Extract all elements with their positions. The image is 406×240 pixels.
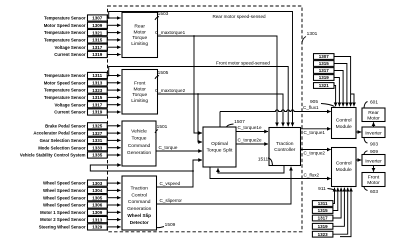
label 909 bbox=[364, 149, 378, 155]
svg-text:909: 909 bbox=[370, 149, 378, 155]
svg-text:Optimal: Optimal bbox=[211, 141, 228, 147]
svg-text:C_torque1: C_torque1 bbox=[304, 130, 326, 135]
label 601 bbox=[364, 100, 378, 108]
svg-text:Wheel Speed Sensor: Wheel Speed Sensor bbox=[43, 195, 86, 200]
dashed system boundary 1301 bbox=[108, 6, 303, 232]
sensor Vehicle Stability Control System 1335 bbox=[20, 152, 121, 158]
svg-text:C_torque1e: C_torque1e bbox=[238, 125, 262, 130]
svg-text:Current Sensor: Current Sensor bbox=[54, 110, 86, 115]
svg-text:Motor 1 Speed Sensor: Motor 1 Speed Sensor bbox=[40, 210, 86, 215]
label 1505 bbox=[155, 70, 169, 79]
block Control Module (rear) bbox=[332, 108, 357, 139]
sensor Current Sensor 1319 bbox=[54, 51, 120, 57]
block Vehicle Torque Command Generation 1501 bbox=[122, 121, 156, 166]
label 1301 bbox=[302, 31, 318, 44]
svg-text:1307: 1307 bbox=[319, 54, 330, 59]
svg-text:Traction: Traction bbox=[130, 186, 148, 192]
svg-text:Wheel Slip: Wheel Slip bbox=[127, 213, 151, 218]
wire rear speed to control module bbox=[351, 94, 354, 106]
wire C_maxtorque1 to traction controller bbox=[158, 35, 278, 126]
svg-text:1309: 1309 bbox=[92, 210, 103, 215]
block Front Motor Torque Limiting 1505 bbox=[122, 70, 158, 115]
sensor Temperature Sensor 1315 bbox=[44, 37, 121, 43]
sensor box 1315 (rear CM input) bbox=[314, 61, 347, 107]
svg-text:Gear Selection Sensor: Gear Selection Sensor bbox=[40, 138, 86, 143]
wire C_maxtorque1 branch to optimal torque split bbox=[194, 36, 202, 133]
svg-text:Torque: Torque bbox=[132, 35, 147, 41]
block Inverter (front) 909 bbox=[362, 155, 385, 166]
wire C_vspeed to optimal torque split bbox=[157, 160, 203, 187]
wire rear motor speed-sensed bbox=[108, 12, 293, 127]
svg-text:Torque Split: Torque Split bbox=[207, 147, 233, 153]
label 1507 bbox=[227, 119, 246, 127]
svg-text:1317: 1317 bbox=[92, 102, 103, 107]
sensor Motor 2 Speed Sensor 1313 bbox=[40, 217, 120, 223]
svg-text:Generation: Generation bbox=[127, 150, 151, 156]
svg-text:601: 601 bbox=[370, 100, 378, 106]
svg-text:Generation: Generation bbox=[127, 206, 151, 212]
wire front motor speed-sensed bbox=[108, 67, 288, 127]
sensor box 1317 (front CM input) bbox=[312, 188, 341, 221]
svg-text:1315: 1315 bbox=[92, 38, 103, 43]
svg-text:Motor 2 Speed Sensor: Motor 2 Speed Sensor bbox=[40, 217, 86, 222]
svg-text:Front motor speed-sensed: Front motor speed-sensed bbox=[216, 61, 270, 66]
svg-text:Wheel Speed Sensor: Wheel Speed Sensor bbox=[43, 203, 86, 208]
svg-text:C_torque: C_torque bbox=[159, 145, 178, 150]
svg-text:1313: 1313 bbox=[92, 81, 103, 86]
svg-text:C_flux2: C_flux2 bbox=[304, 172, 320, 177]
svg-text:1315: 1315 bbox=[92, 95, 103, 100]
svg-text:1331: 1331 bbox=[92, 138, 103, 143]
svg-text:Motor Speed Sensor: Motor Speed Sensor bbox=[44, 80, 86, 85]
wire C_maxtorque2 branch to optimal torque split bbox=[198, 94, 202, 142]
svg-text:Module: Module bbox=[336, 124, 352, 130]
svg-text:1319: 1319 bbox=[92, 52, 103, 57]
label 903 bbox=[364, 138, 378, 148]
svg-text:Voltage Sensor: Voltage Sensor bbox=[55, 45, 86, 50]
svg-text:Rear motor speed-sensed: Rear motor speed-sensed bbox=[212, 14, 266, 19]
sensor Temperature Sensor 1315 bbox=[44, 94, 121, 100]
wire C_sliperror to traction controller bbox=[157, 167, 292, 204]
svg-text:1505: 1505 bbox=[158, 70, 169, 76]
label 603 bbox=[364, 187, 378, 195]
svg-text:603: 603 bbox=[370, 189, 378, 195]
sensor Voltage Sensor 1317 bbox=[55, 102, 121, 108]
svg-text:C_maxtorque2: C_maxtorque2 bbox=[155, 88, 186, 93]
wire C_flux2 from optimal torque split to front control module bbox=[210, 167, 331, 179]
svg-text:Traction: Traction bbox=[276, 141, 294, 147]
svg-text:1509: 1509 bbox=[165, 222, 176, 228]
svg-text:Motor Speed Sensor: Motor Speed Sensor bbox=[44, 23, 86, 28]
svg-text:Front: Front bbox=[368, 175, 380, 181]
svg-text:C_torque2: C_torque2 bbox=[304, 151, 326, 156]
wire C_torque2 bbox=[301, 149, 331, 151]
svg-text:Front: Front bbox=[134, 81, 146, 87]
sensor Accelerator Pedal Sensor 1327 bbox=[33, 130, 120, 136]
svg-text:Current Sensor: Current Sensor bbox=[54, 52, 86, 57]
svg-text:1311: 1311 bbox=[318, 201, 328, 206]
block Rear Motor 601 bbox=[362, 108, 385, 122]
wire C_torque2e bbox=[236, 143, 268, 145]
sensor box 1321 (rear CM input) bbox=[314, 83, 336, 107]
svg-text:1317: 1317 bbox=[319, 68, 330, 73]
svg-text:1309: 1309 bbox=[92, 23, 103, 28]
wire vehicle speed loop to vehicle torque command generation bbox=[90, 165, 193, 171]
block Optimal Torque Split 1507 bbox=[203, 127, 236, 167]
svg-text:903: 903 bbox=[370, 142, 378, 148]
svg-text:Temperature Sensor: Temperature Sensor bbox=[44, 88, 86, 93]
label 1509 bbox=[157, 222, 176, 228]
block Traction Control Command Generation / Wheel Slip Detector 1509 bbox=[122, 176, 157, 230]
svg-text:Voltage Sensor: Voltage Sensor bbox=[55, 102, 86, 107]
wire C_torque1 bbox=[301, 128, 331, 130]
sensor Temperature Sensor 1311 bbox=[44, 72, 121, 78]
block Rear Motor Torque Limiting 1503 bbox=[122, 12, 158, 57]
sensor box 1315 (front CM input) bbox=[312, 188, 337, 214]
svg-text:1319: 1319 bbox=[319, 75, 330, 80]
label 1511 bbox=[258, 157, 273, 166]
sensor Current Sensor 1319 bbox=[54, 109, 120, 115]
svg-text:Temperature Sensor: Temperature Sensor bbox=[44, 16, 86, 21]
sensor Voltage Sensor 1317 bbox=[55, 44, 121, 50]
svg-text:1311: 1311 bbox=[92, 73, 102, 78]
svg-text:Accelerator Pedal Sensor: Accelerator Pedal Sensor bbox=[33, 131, 85, 136]
sensor Motor Speed Sensor 1313 bbox=[44, 80, 121, 86]
sensor Steering Wheel Sensor 1329 bbox=[39, 224, 121, 230]
svg-text:Controller: Controller bbox=[274, 147, 296, 153]
svg-text:Temperature Sensor: Temperature Sensor bbox=[44, 38, 86, 43]
svg-text:Detector: Detector bbox=[130, 220, 149, 225]
svg-text:Motor: Motor bbox=[133, 86, 146, 92]
sensor Mode Selection Sensor 1333 bbox=[38, 145, 120, 151]
svg-text:Control: Control bbox=[336, 118, 352, 124]
wire C_torque bbox=[156, 150, 202, 152]
block Front Motor 603 bbox=[362, 173, 385, 187]
sensor box 1311 (front CM input) bbox=[312, 188, 334, 207]
svg-text:Wheel Speed Sensor: Wheel Speed Sensor bbox=[43, 181, 86, 186]
svg-text:1501: 1501 bbox=[157, 124, 168, 130]
sensor Motor 1 Speed Sensor 1309 bbox=[40, 209, 120, 215]
svg-text:Vehicle Stability Control Syst: Vehicle Stability Control System bbox=[20, 153, 86, 158]
svg-text:Command: Command bbox=[128, 199, 151, 205]
svg-text:1304: 1304 bbox=[92, 188, 103, 193]
sensor Temperature Sensor 1307 bbox=[44, 15, 121, 21]
sensor box 1317 (rear CM input) bbox=[314, 68, 344, 107]
sensor Wheel Speed Sensor 1306 bbox=[43, 202, 121, 208]
svg-text:Control: Control bbox=[131, 192, 147, 198]
label 1501 bbox=[155, 124, 168, 133]
sensor box 1323 (front CM input) bbox=[312, 188, 347, 237]
sensor Wheel Speed Sensor 1303 bbox=[43, 180, 121, 186]
svg-text:905: 905 bbox=[310, 99, 318, 105]
svg-text:C_sliperror: C_sliperror bbox=[160, 198, 183, 203]
svg-text:1319: 1319 bbox=[92, 110, 103, 115]
svg-text:1303: 1303 bbox=[92, 181, 103, 186]
sensor Brake Pedal Sensor 1325 bbox=[45, 123, 120, 129]
svg-text:Brake Pedal Sensor: Brake Pedal Sensor bbox=[45, 123, 86, 128]
sensor Wheel Speed Sensor 1305 bbox=[43, 195, 121, 201]
svg-text:1333: 1333 bbox=[92, 145, 103, 150]
svg-text:Rear: Rear bbox=[134, 24, 145, 30]
svg-text:Vehicle: Vehicle bbox=[131, 128, 147, 134]
svg-text:Torque: Torque bbox=[132, 92, 147, 98]
svg-text:1307: 1307 bbox=[92, 16, 103, 21]
svg-text:1306: 1306 bbox=[92, 203, 103, 208]
svg-text:C_vspeed: C_vspeed bbox=[160, 181, 181, 186]
svg-text:1301: 1301 bbox=[307, 31, 318, 37]
svg-text:Temperature Sensor: Temperature Sensor bbox=[44, 95, 86, 100]
wire front inverter to front motor bbox=[373, 166, 375, 172]
block Traction Controller 1511 bbox=[269, 128, 301, 166]
block Control Module (front) bbox=[332, 148, 357, 187]
wire C_torque1e bbox=[236, 131, 268, 133]
svg-text:Temperature Sensor: Temperature Sensor bbox=[44, 73, 86, 78]
sensor Temperature Sensor 1323 bbox=[44, 87, 121, 93]
sensor Wheel Speed Sensor 1304 bbox=[43, 187, 121, 193]
svg-text:1317: 1317 bbox=[92, 45, 103, 50]
wire traction controller feedback bbox=[218, 166, 284, 174]
wire control module to front inverter bbox=[356, 159, 361, 161]
wire C_maxtorque2 to traction controller bbox=[158, 93, 284, 126]
svg-text:Temperature Sensor: Temperature Sensor bbox=[44, 30, 86, 35]
svg-text:1329: 1329 bbox=[92, 225, 103, 230]
svg-text:1323: 1323 bbox=[318, 232, 329, 237]
svg-text:1319: 1319 bbox=[318, 224, 329, 229]
svg-text:1321: 1321 bbox=[92, 30, 103, 35]
wire control module to rear inverter bbox=[356, 131, 361, 133]
svg-text:1511: 1511 bbox=[258, 157, 269, 163]
sensor box 1307 (rear CM input) bbox=[314, 54, 351, 107]
wire C_flux1 from optimal torque split to rear control module bbox=[220, 110, 331, 127]
svg-text:Inverter: Inverter bbox=[365, 131, 382, 137]
svg-text:1323: 1323 bbox=[92, 88, 103, 93]
svg-text:Torque: Torque bbox=[132, 136, 147, 142]
svg-text:1317: 1317 bbox=[318, 216, 329, 221]
wire rear inverter to rear motor bbox=[373, 122, 375, 127]
svg-text:1305: 1305 bbox=[92, 195, 103, 200]
sensor Gear Selection Sensor 1331 bbox=[40, 137, 121, 143]
svg-text:1325: 1325 bbox=[92, 124, 103, 129]
svg-text:1327: 1327 bbox=[92, 131, 103, 136]
svg-text:911: 911 bbox=[318, 186, 326, 192]
svg-text:Wheel Speed Sensor: Wheel Speed Sensor bbox=[43, 188, 86, 193]
svg-text:1313: 1313 bbox=[92, 217, 103, 222]
sensor Motor Speed Sensor 1309 bbox=[44, 22, 121, 28]
svg-text:Limiting: Limiting bbox=[131, 98, 148, 104]
svg-text:C_flux1: C_flux1 bbox=[303, 105, 319, 110]
sensor Temperature Sensor 1321 bbox=[44, 30, 121, 36]
svg-text:Control: Control bbox=[336, 161, 352, 167]
svg-text:1321: 1321 bbox=[319, 83, 330, 88]
sensor box 1319 (front CM input) bbox=[312, 188, 344, 229]
svg-text:Module: Module bbox=[336, 167, 352, 173]
svg-text:Command: Command bbox=[128, 143, 151, 149]
label 905 bbox=[310, 99, 335, 106]
svg-text:1315: 1315 bbox=[319, 61, 330, 66]
label 911 bbox=[318, 186, 334, 192]
svg-text:Motor: Motor bbox=[367, 115, 380, 121]
svg-text:Limiting: Limiting bbox=[131, 41, 148, 47]
block Inverter (rear) 903 bbox=[362, 127, 385, 138]
svg-text:C_maxtorque1: C_maxtorque1 bbox=[155, 30, 186, 35]
svg-text:Motor: Motor bbox=[133, 29, 146, 35]
svg-text:1315: 1315 bbox=[318, 208, 329, 213]
wire front speed to control module bbox=[340, 188, 351, 237]
svg-text:1335: 1335 bbox=[92, 153, 103, 158]
svg-text:Mode Selection Sensor: Mode Selection Sensor bbox=[38, 145, 86, 150]
svg-text:Rear: Rear bbox=[368, 110, 379, 116]
svg-text:Motor: Motor bbox=[367, 180, 380, 186]
svg-text:C_torque2e: C_torque2e bbox=[238, 138, 262, 143]
label 1503 bbox=[155, 11, 169, 20]
svg-text:Inverter: Inverter bbox=[365, 158, 382, 164]
svg-text:Steering Wheel Sensor: Steering Wheel Sensor bbox=[39, 225, 86, 230]
sensor box 1319 (rear CM input) bbox=[314, 75, 340, 107]
svg-text:1507: 1507 bbox=[234, 119, 245, 125]
